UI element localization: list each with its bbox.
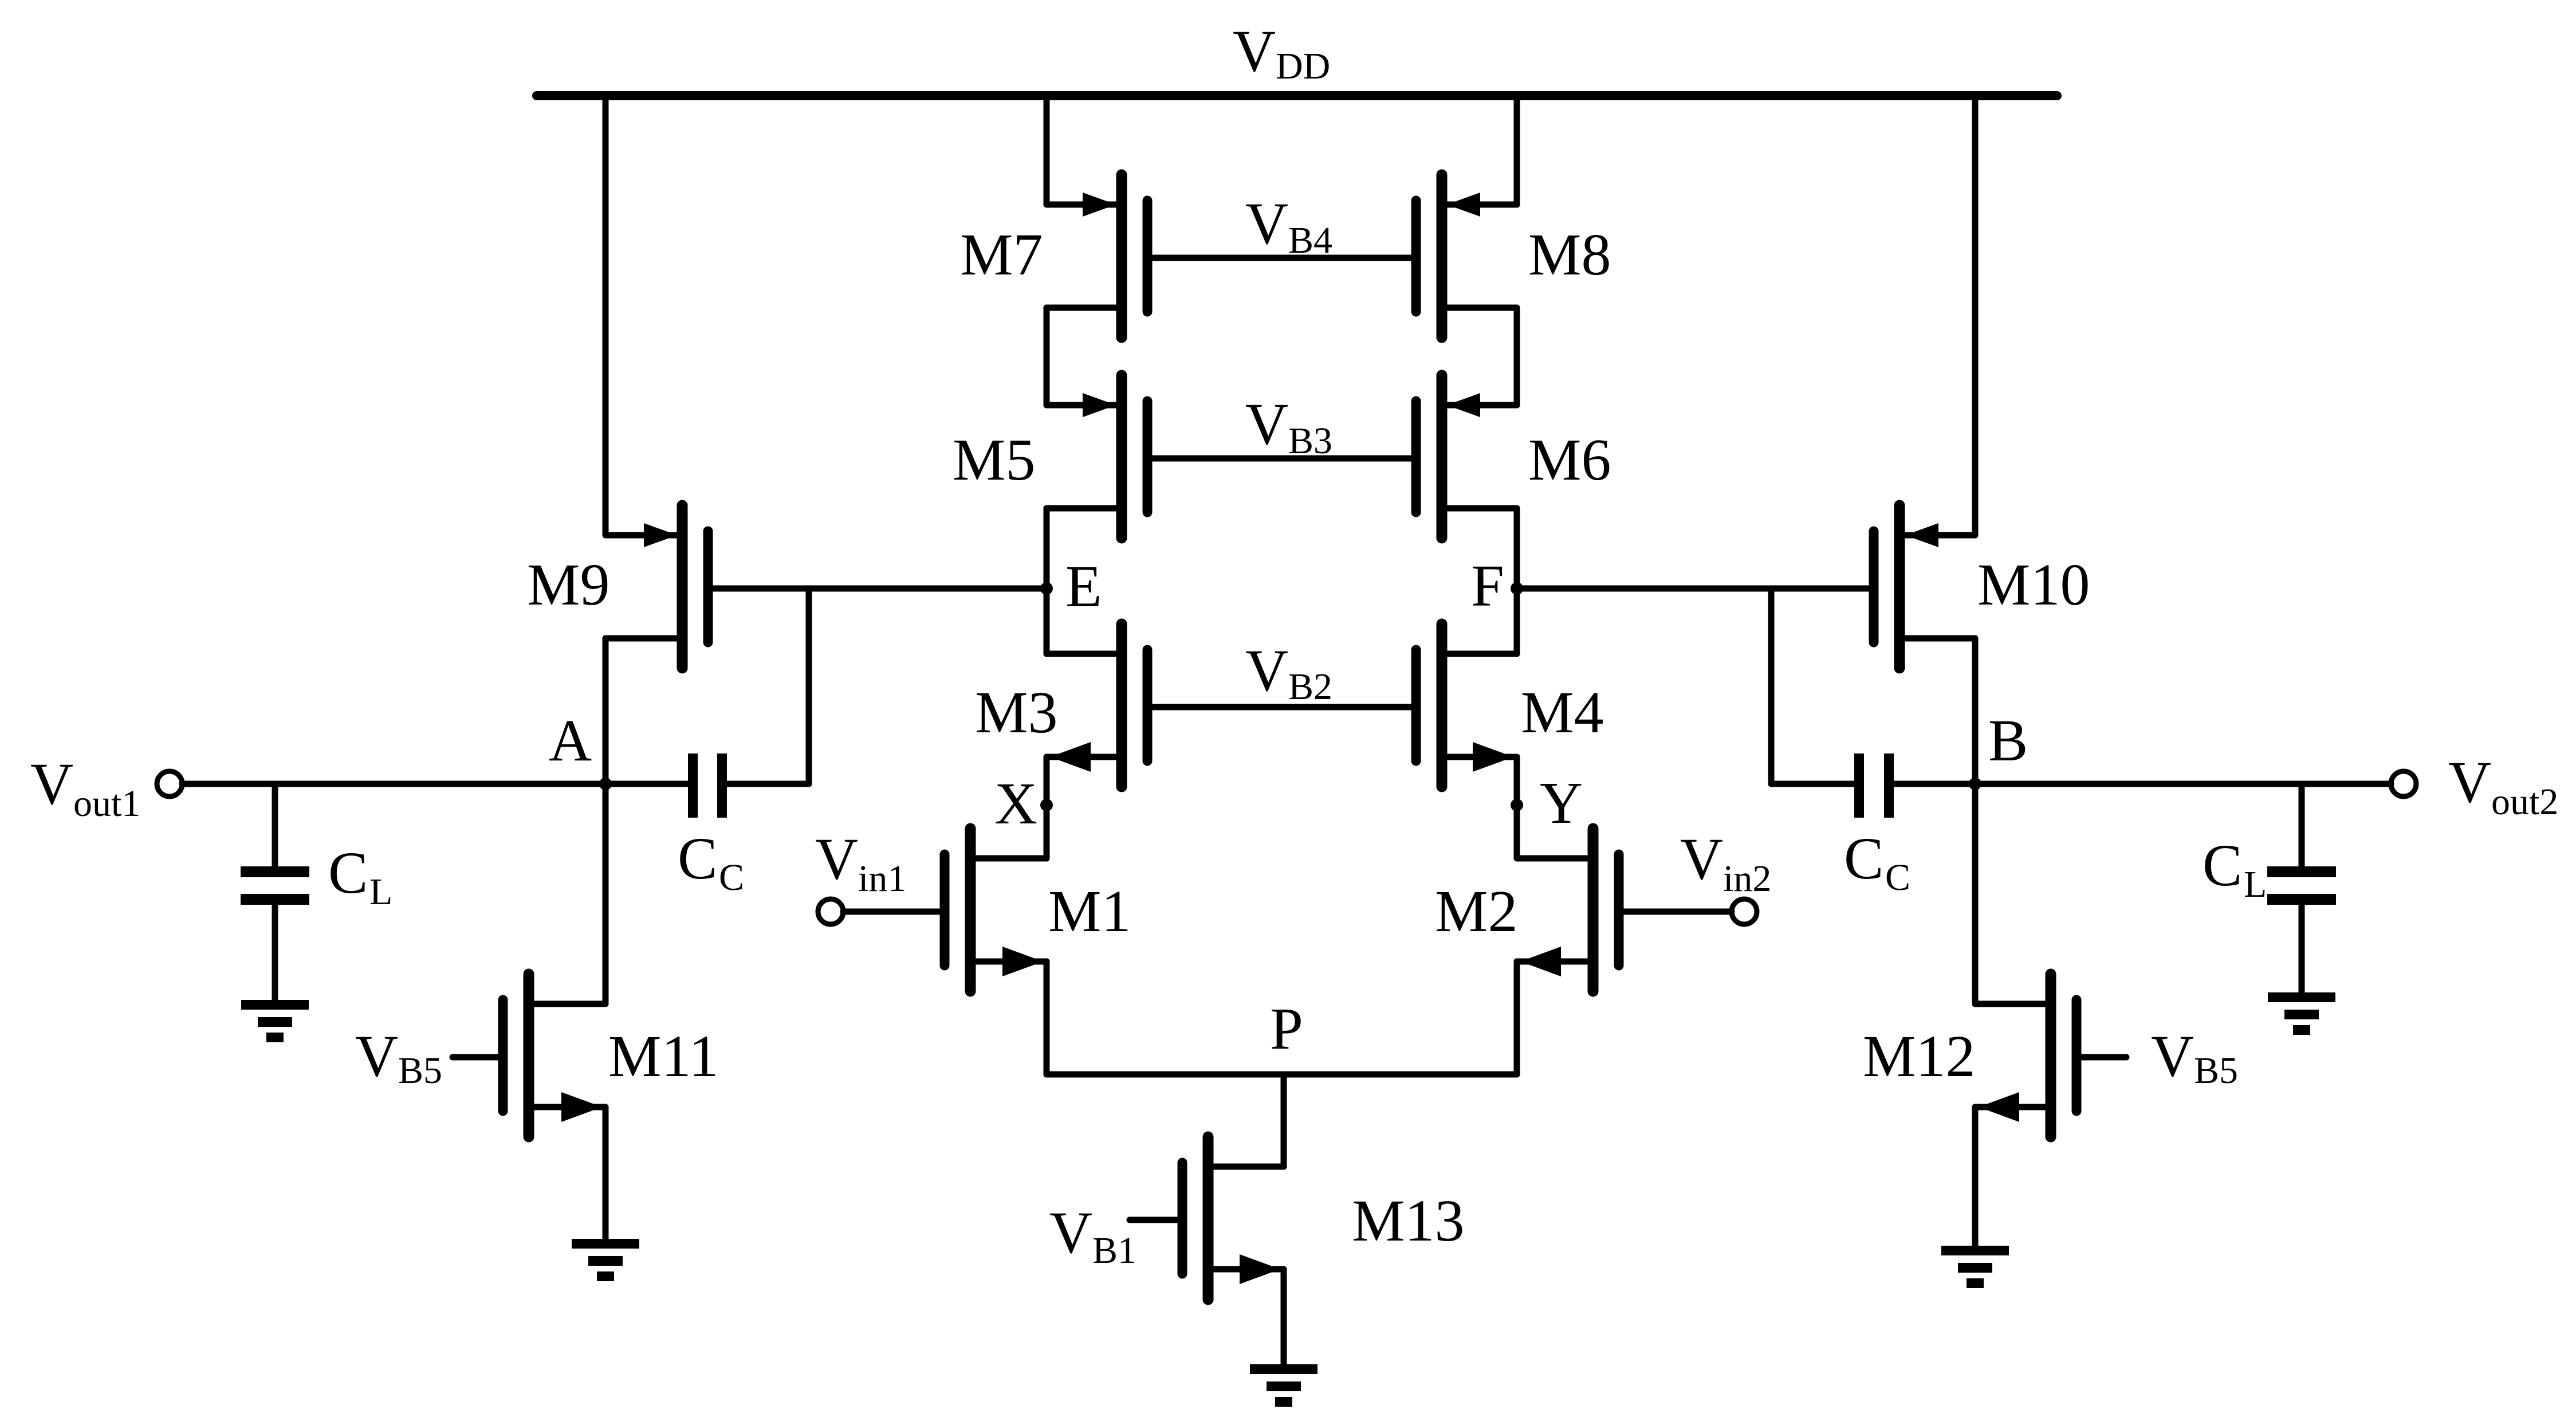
svg-text:Y: Y [1540,770,1583,836]
wire CC right riser to M10 gate line [1768,588,1775,784]
wire M7 drain to M5 source [1044,308,1050,405]
svg-text:M2: M2 [1435,878,1517,944]
svg-text:X: X [994,771,1037,837]
wire riser to CC right [1771,781,1854,787]
svg-text:C: C [2203,833,2242,898]
wire VB1 to M13 gate [1130,1217,1177,1223]
svg-text:V: V [815,826,858,892]
transistor M6 [1416,375,1517,538]
svg-text:L: L [2244,864,2267,905]
wire M1 source to node P [1044,961,1050,1074]
node X [1040,799,1053,811]
node E [1040,582,1053,595]
svg-text:M1: M1 [1048,878,1131,944]
svg-text:B5: B5 [2194,1050,2238,1092]
wire node E to M3 drain [1044,588,1050,654]
wire M4 source to M2 drain via node Y [1514,757,1520,858]
svg-text:V: V [355,1023,398,1089]
wire M12 gate to VB5 [2082,1054,2126,1061]
svg-text:V: V [2448,749,2491,815]
capacitor CC left [688,753,727,818]
wire M10 drain to node B to M12 drain [1972,638,1979,1004]
wire VDD to M9 source [603,96,609,535]
terminal Vout2 [2391,771,2416,796]
svg-text:E: E [1065,554,1102,619]
wire node P rail [1047,1072,1517,1078]
ground under M11 [572,1239,639,1281]
wire M3 source to M1 drain via node X [1044,757,1050,858]
svg-text:F: F [1471,553,1504,619]
capacitor CL right [2267,866,2336,905]
wire CL left to ground [272,905,278,1000]
wire VB2 gate line [1153,704,1411,711]
svg-text:M11: M11 [608,1023,719,1089]
wire VDD to M8 source [1514,96,1520,205]
svg-text:A: A [549,708,592,774]
svg-text:B1: B1 [1092,1230,1136,1271]
svg-text:M12: M12 [1863,1023,1975,1089]
wire VB3 gate line [1153,456,1411,462]
wire M9 drain to node A to M11 drain [603,638,609,1004]
wire VB4 gate line [1153,255,1411,261]
ground under M13 [1250,1364,1318,1407]
transistor M7 [1047,175,1147,337]
ground under CL right [2268,992,2335,1035]
svg-text:B2: B2 [1288,666,1332,708]
transistor M10 [1874,505,1975,668]
svg-text:L: L [369,871,392,913]
svg-text:B5: B5 [398,1050,442,1092]
capacitor CL left [241,866,309,905]
svg-text:out1: out1 [73,783,140,825]
svg-text:C: C [328,840,368,906]
svg-text:M9: M9 [527,552,609,618]
svg-text:M8: M8 [1528,222,1611,288]
ground under M12 [1941,1246,2009,1288]
svg-text:in2: in2 [1723,858,1771,900]
svg-text:in1: in1 [858,858,906,900]
svg-text:V: V [1245,391,1288,457]
svg-text:out2: out2 [2491,781,2558,823]
wire Vin1 to M1 gate [843,909,939,915]
svg-text:B: B [1988,708,2028,774]
svg-text:M6: M6 [1528,427,1611,493]
svg-text:M10: M10 [1977,552,2090,618]
svg-text:M3: M3 [975,680,1057,745]
svg-text:V: V [2151,1023,2194,1089]
transistor M5 [1047,375,1147,538]
svg-text:C: C [719,857,744,898]
svg-text:V: V [1233,18,1276,84]
wire output line to CL right [2299,784,2305,866]
ground under CL left [241,1000,309,1042]
wire M6 drain to node F [1514,508,1520,588]
capacitor CC right [1854,753,1894,818]
svg-text:DD: DD [1276,45,1330,87]
wire M11 source to ground [603,1107,609,1239]
node Y [1511,799,1523,811]
transistor M4 [1416,624,1517,787]
transistor M12 [1975,974,2076,1137]
wire CC riser to M9 gate line [806,588,812,784]
svg-text:V: V [30,751,73,817]
wire M2 source to node P [1514,961,1520,1074]
terminal Vout1 [157,771,182,796]
svg-text:M13: M13 [1352,1188,1464,1254]
svg-text:P: P [1270,996,1303,1062]
transistor M11 [503,974,605,1137]
svg-text:C: C [678,826,717,892]
transistor M8 [1416,175,1517,337]
power rail VDD [537,91,2057,100]
transistor M1 [945,829,1047,991]
wire CL right to ground [2299,905,2305,992]
wire M5 drain to node E [1044,508,1050,588]
wire M8 drain to M6 source [1514,308,1520,405]
wire node F to M10 gate [1517,586,1869,592]
svg-text:M5: M5 [953,427,1035,493]
svg-text:V: V [1680,826,1723,892]
svg-text:V: V [1245,638,1288,704]
svg-text:V: V [1049,1200,1092,1266]
svg-text:C: C [1844,826,1883,892]
wire M2 gate to Vin2 [1624,909,1732,915]
svg-text:M7: M7 [960,222,1043,288]
node B [1969,778,1981,790]
wire M13 source to ground [1281,1269,1287,1364]
terminal Vin1 [818,899,843,924]
svg-text:C: C [1885,857,1910,898]
svg-text:B4: B4 [1288,219,1332,261]
wire VDD to M7 source [1044,96,1050,205]
wire node F to M4 drain [1514,588,1520,654]
wire output line to CL left [272,784,278,866]
svg-text:M4: M4 [1521,680,1603,745]
transistor M9 [605,505,708,668]
wire CC right to node B to Vout2 [1893,781,2391,787]
transistor M2 [1517,829,1619,991]
terminal Vin2 [1732,899,1757,924]
wire CC to riser [727,781,809,787]
node F [1511,582,1523,595]
wire M12 source to ground [1972,1107,1979,1246]
wire VB5 to M11 gate [453,1054,498,1061]
transistor M13 [1182,1137,1284,1300]
svg-text:B3: B3 [1288,420,1332,462]
transistor M3 [1047,624,1147,787]
wire Vout1 to node A to CC [182,781,688,787]
wire VDD to M10 source [1972,96,1979,535]
wire node P to M13 drain [1281,1074,1287,1167]
wire M9 gate to node E [713,586,1047,592]
node A [599,778,612,790]
svg-text:V: V [1245,191,1288,257]
